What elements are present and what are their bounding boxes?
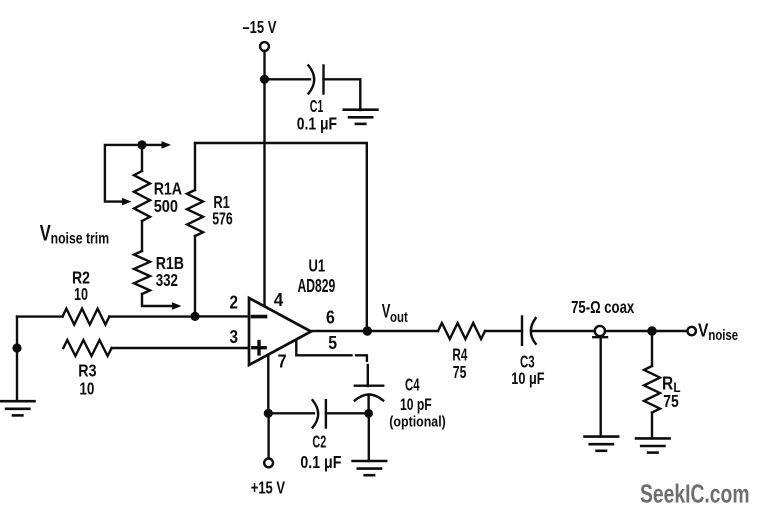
svg-text:(optional): (optional)	[389, 413, 446, 430]
ground (C1 bypass)	[344, 110, 378, 124]
svg-text:7: 7	[278, 350, 287, 371]
node R3 tap	[12, 343, 21, 352]
svg-text:SeekIC.com: SeekIC.com	[640, 479, 750, 509]
wire coax to output node	[605, 330, 652, 332]
resistor R3	[63, 340, 249, 356]
wire output pin 6	[311, 330, 438, 332]
svg-text:2: 2	[230, 291, 239, 312]
wire -15V terminal to C1 junction	[263, 51, 265, 79]
svg-text:5: 5	[328, 332, 337, 353]
ground (RL)	[636, 438, 670, 452]
wire R1A to R1B	[141, 221, 143, 251]
wire pin 2	[195, 315, 249, 317]
ground (C4/C2)	[353, 461, 387, 475]
svg-text:noise: noise	[708, 328, 738, 344]
ground (input)	[1, 401, 35, 415]
junction C1 tap	[260, 75, 269, 84]
power terminal -15V	[260, 42, 269, 51]
svg-text:10: 10	[79, 379, 94, 399]
op-amp U1	[249, 298, 311, 365]
svg-text:75: 75	[663, 391, 679, 411]
node trim top	[137, 140, 146, 149]
svg-text:500: 500	[154, 196, 178, 216]
capacitor C1	[309, 66, 324, 94]
label Vnoise	[698, 319, 738, 344]
node output	[647, 326, 656, 335]
svg-text:R3: R3	[78, 360, 96, 380]
wire feedback R1 top to Vout	[195, 143, 367, 331]
ground (coax)	[585, 437, 619, 451]
node Vout	[363, 326, 372, 335]
wire C1 to ground	[324, 79, 361, 110]
svg-text:V: V	[698, 319, 709, 340]
svg-text:out: out	[390, 310, 408, 326]
wire trim wiper link	[105, 145, 142, 206]
svg-text:AD829: AD829	[298, 275, 336, 296]
wire C2 to node	[326, 412, 369, 414]
svg-text:4: 4	[274, 289, 284, 310]
svg-text:C2: C2	[312, 432, 326, 452]
svg-text:0.1 μF: 0.1 μF	[297, 113, 337, 133]
resistor R1A (pot element)	[134, 145, 150, 221]
svg-text:10 μF: 10 μF	[511, 369, 544, 388]
node decoupling C2/C4	[364, 409, 373, 418]
wire -15V rail to pin 4	[263, 79, 265, 306]
wire R4 to C3	[485, 330, 522, 332]
svg-text:noise trim: noise trim	[51, 230, 110, 247]
svg-text:6: 6	[326, 306, 335, 327]
label RL	[662, 372, 681, 395]
wire node to ground (C4)	[368, 413, 370, 461]
wire pin7 node to C2	[268, 412, 314, 414]
node inverting input	[190, 312, 199, 321]
terminal Vnoise	[688, 327, 696, 335]
svg-text:10: 10	[74, 284, 88, 304]
resistor R1	[187, 143, 203, 316]
resistor R1B	[134, 251, 150, 294]
wire +15V	[267, 413, 269, 458]
svg-text:332: 332	[156, 270, 178, 290]
coax connector	[593, 326, 607, 337]
svg-text:75: 75	[453, 362, 467, 382]
svg-text:0.1 μF: 0.1 μF	[300, 452, 341, 472]
label Vout	[382, 302, 408, 326]
wire pin 7	[267, 355, 269, 414]
wire C3 to coax connector	[533, 330, 595, 332]
capacitor C2	[313, 400, 326, 427]
resistor R4	[438, 323, 485, 339]
label Vnoise trim	[40, 221, 109, 248]
svg-text:75-Ω coax: 75-Ω coax	[571, 297, 634, 317]
svg-text:V: V	[40, 221, 51, 246]
wire R1B bottom arrow	[142, 294, 182, 310]
wire coax shield to ground	[600, 337, 602, 436]
svg-text:10 pF: 10 pF	[400, 395, 432, 414]
wire input to ground	[16, 348, 18, 401]
capacitor C3	[522, 317, 536, 345]
svg-text:U1: U1	[309, 256, 326, 276]
wire junction to C1	[265, 78, 311, 80]
wire node to Vnoise terminal	[652, 330, 688, 332]
svg-text:–15 V: –15 V	[242, 17, 276, 37]
capacitor C4	[355, 386, 383, 414]
wire trim arrow (top)	[142, 141, 171, 149]
node pin7 / +15V	[264, 409, 273, 418]
wire input left drop	[16, 317, 18, 348]
power terminal +15V	[264, 459, 273, 468]
svg-text:C4: C4	[405, 375, 420, 395]
wire pin 5 compensation (dashed)	[296, 341, 368, 387]
resistor R2	[17, 309, 195, 325]
svg-text:+15 V: +15 V	[251, 478, 285, 498]
svg-text:3: 3	[230, 326, 239, 347]
resistor RL	[644, 331, 660, 438]
svg-text:576: 576	[212, 209, 233, 229]
